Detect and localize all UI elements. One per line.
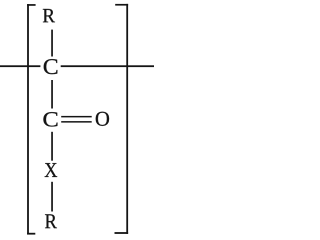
bond carbonyl C to X — [51, 132, 53, 161]
left repeat-unit bracket — [27, 4, 35, 235]
linker group X — [45, 163, 58, 177]
bond R to backbone C — [51, 30, 53, 57]
C=O double bond — [61, 116, 91, 123]
substituent R (top) — [43, 9, 55, 22]
right repeat-unit bracket — [115, 4, 129, 234]
wire: polymer backbone bond, right segment — [61, 65, 154, 67]
carbonyl carbon C — [43, 112, 57, 126]
bond backbone C to carbonyl C — [51, 80, 53, 109]
backbone carbon C — [44, 59, 58, 74]
bond X to R — [51, 182, 53, 212]
wire: polymer backbone bond, left segment — [0, 65, 40, 67]
oxygen O of carbonyl — [96, 112, 109, 126]
substituent R (bottom) — [45, 214, 57, 228]
